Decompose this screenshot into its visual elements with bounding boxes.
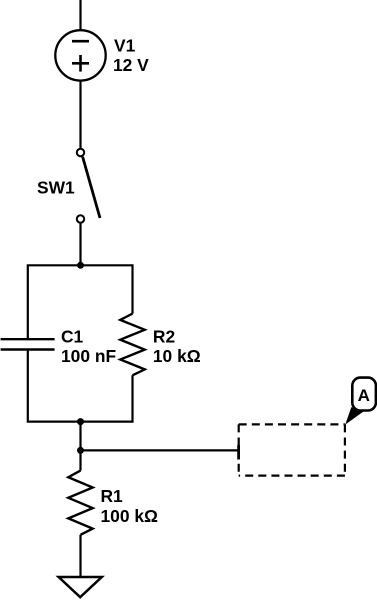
wire top feed into V1: [79, 0, 81, 30]
ground: [59, 577, 102, 597]
wire bottom rail: [28, 350, 133, 422]
resistor R1: [79, 450, 81, 470]
svg-text:SW1: SW1: [37, 178, 75, 198]
svg-text:10 kΩ: 10 kΩ: [153, 346, 201, 366]
wire to black box: [81, 449, 239, 451]
terminal tick at black box pin: [237, 445, 240, 460]
wire top rail: [28, 265, 133, 339]
svg-text:12 V: 12 V: [113, 55, 149, 75]
resistor R2: [120, 314, 144, 376]
node flag A pointer: [345, 407, 367, 424]
svg-text:100 kΩ: 100 kΩ: [101, 506, 159, 526]
svg-text:C1: C1: [61, 327, 84, 347]
svg-text:A: A: [358, 386, 370, 405]
switch SW1: [77, 149, 100, 223]
svg-text:R2: R2: [153, 327, 175, 347]
wire bottom rail to node A junction: [79, 422, 81, 451]
node flag A box: [352, 378, 376, 411]
svg-text:100 nF: 100 nF: [61, 346, 116, 366]
wire V1 to SW1: [79, 81, 81, 149]
wire R1 to ground: [79, 535, 81, 577]
node junction to black box: [77, 447, 84, 454]
voltage source V1: [55, 30, 105, 80]
black box (dashed): [239, 424, 345, 475]
node junction bottom rail: [77, 418, 84, 425]
wire SW1 to top rail: [79, 223, 81, 265]
node junction top: [77, 262, 84, 269]
svg-text:R1: R1: [101, 486, 124, 506]
svg-text:V1: V1: [114, 36, 136, 56]
capacitor C1: [1, 339, 55, 349]
